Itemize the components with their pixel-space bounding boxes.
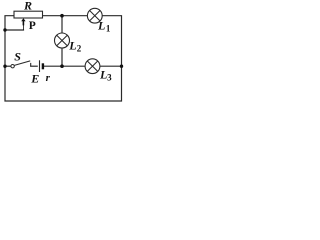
- svg-text:r: r: [46, 72, 51, 84]
- svg-text:L: L: [97, 18, 105, 32]
- svg-text:L: L: [99, 67, 107, 81]
- svg-text:2: 2: [77, 44, 82, 54]
- svg-text:S: S: [14, 49, 21, 63]
- svg-text:1: 1: [106, 24, 111, 34]
- svg-text:R: R: [23, 0, 32, 12]
- svg-text:3: 3: [107, 72, 112, 82]
- svg-text:P: P: [29, 20, 36, 32]
- svg-text:L: L: [68, 38, 76, 52]
- svg-text:E: E: [30, 71, 39, 85]
